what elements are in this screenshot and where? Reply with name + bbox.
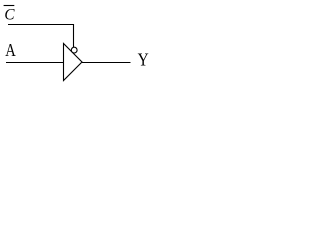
label C-bar (enable input C with overline) <box>4 6 15 23</box>
label A (data input) <box>5 39 16 60</box>
wire: C-bar vertical drop to enable bubble <box>73 24 75 48</box>
svg-text:Y: Y <box>138 49 149 69</box>
overline of C <box>4 5 15 7</box>
svg-text:C: C <box>4 6 15 23</box>
wire: C-bar horizontal run <box>8 24 74 26</box>
tri-state buffer U1 (triangle) <box>64 44 83 81</box>
enable bubble (active-low) <box>71 47 77 53</box>
label Y (output) <box>138 49 149 69</box>
wire: buffer output to Y <box>82 62 131 64</box>
svg-text:A: A <box>5 39 16 60</box>
wire: input A to buffer <box>6 62 64 64</box>
background <box>0 0 152 82</box>
